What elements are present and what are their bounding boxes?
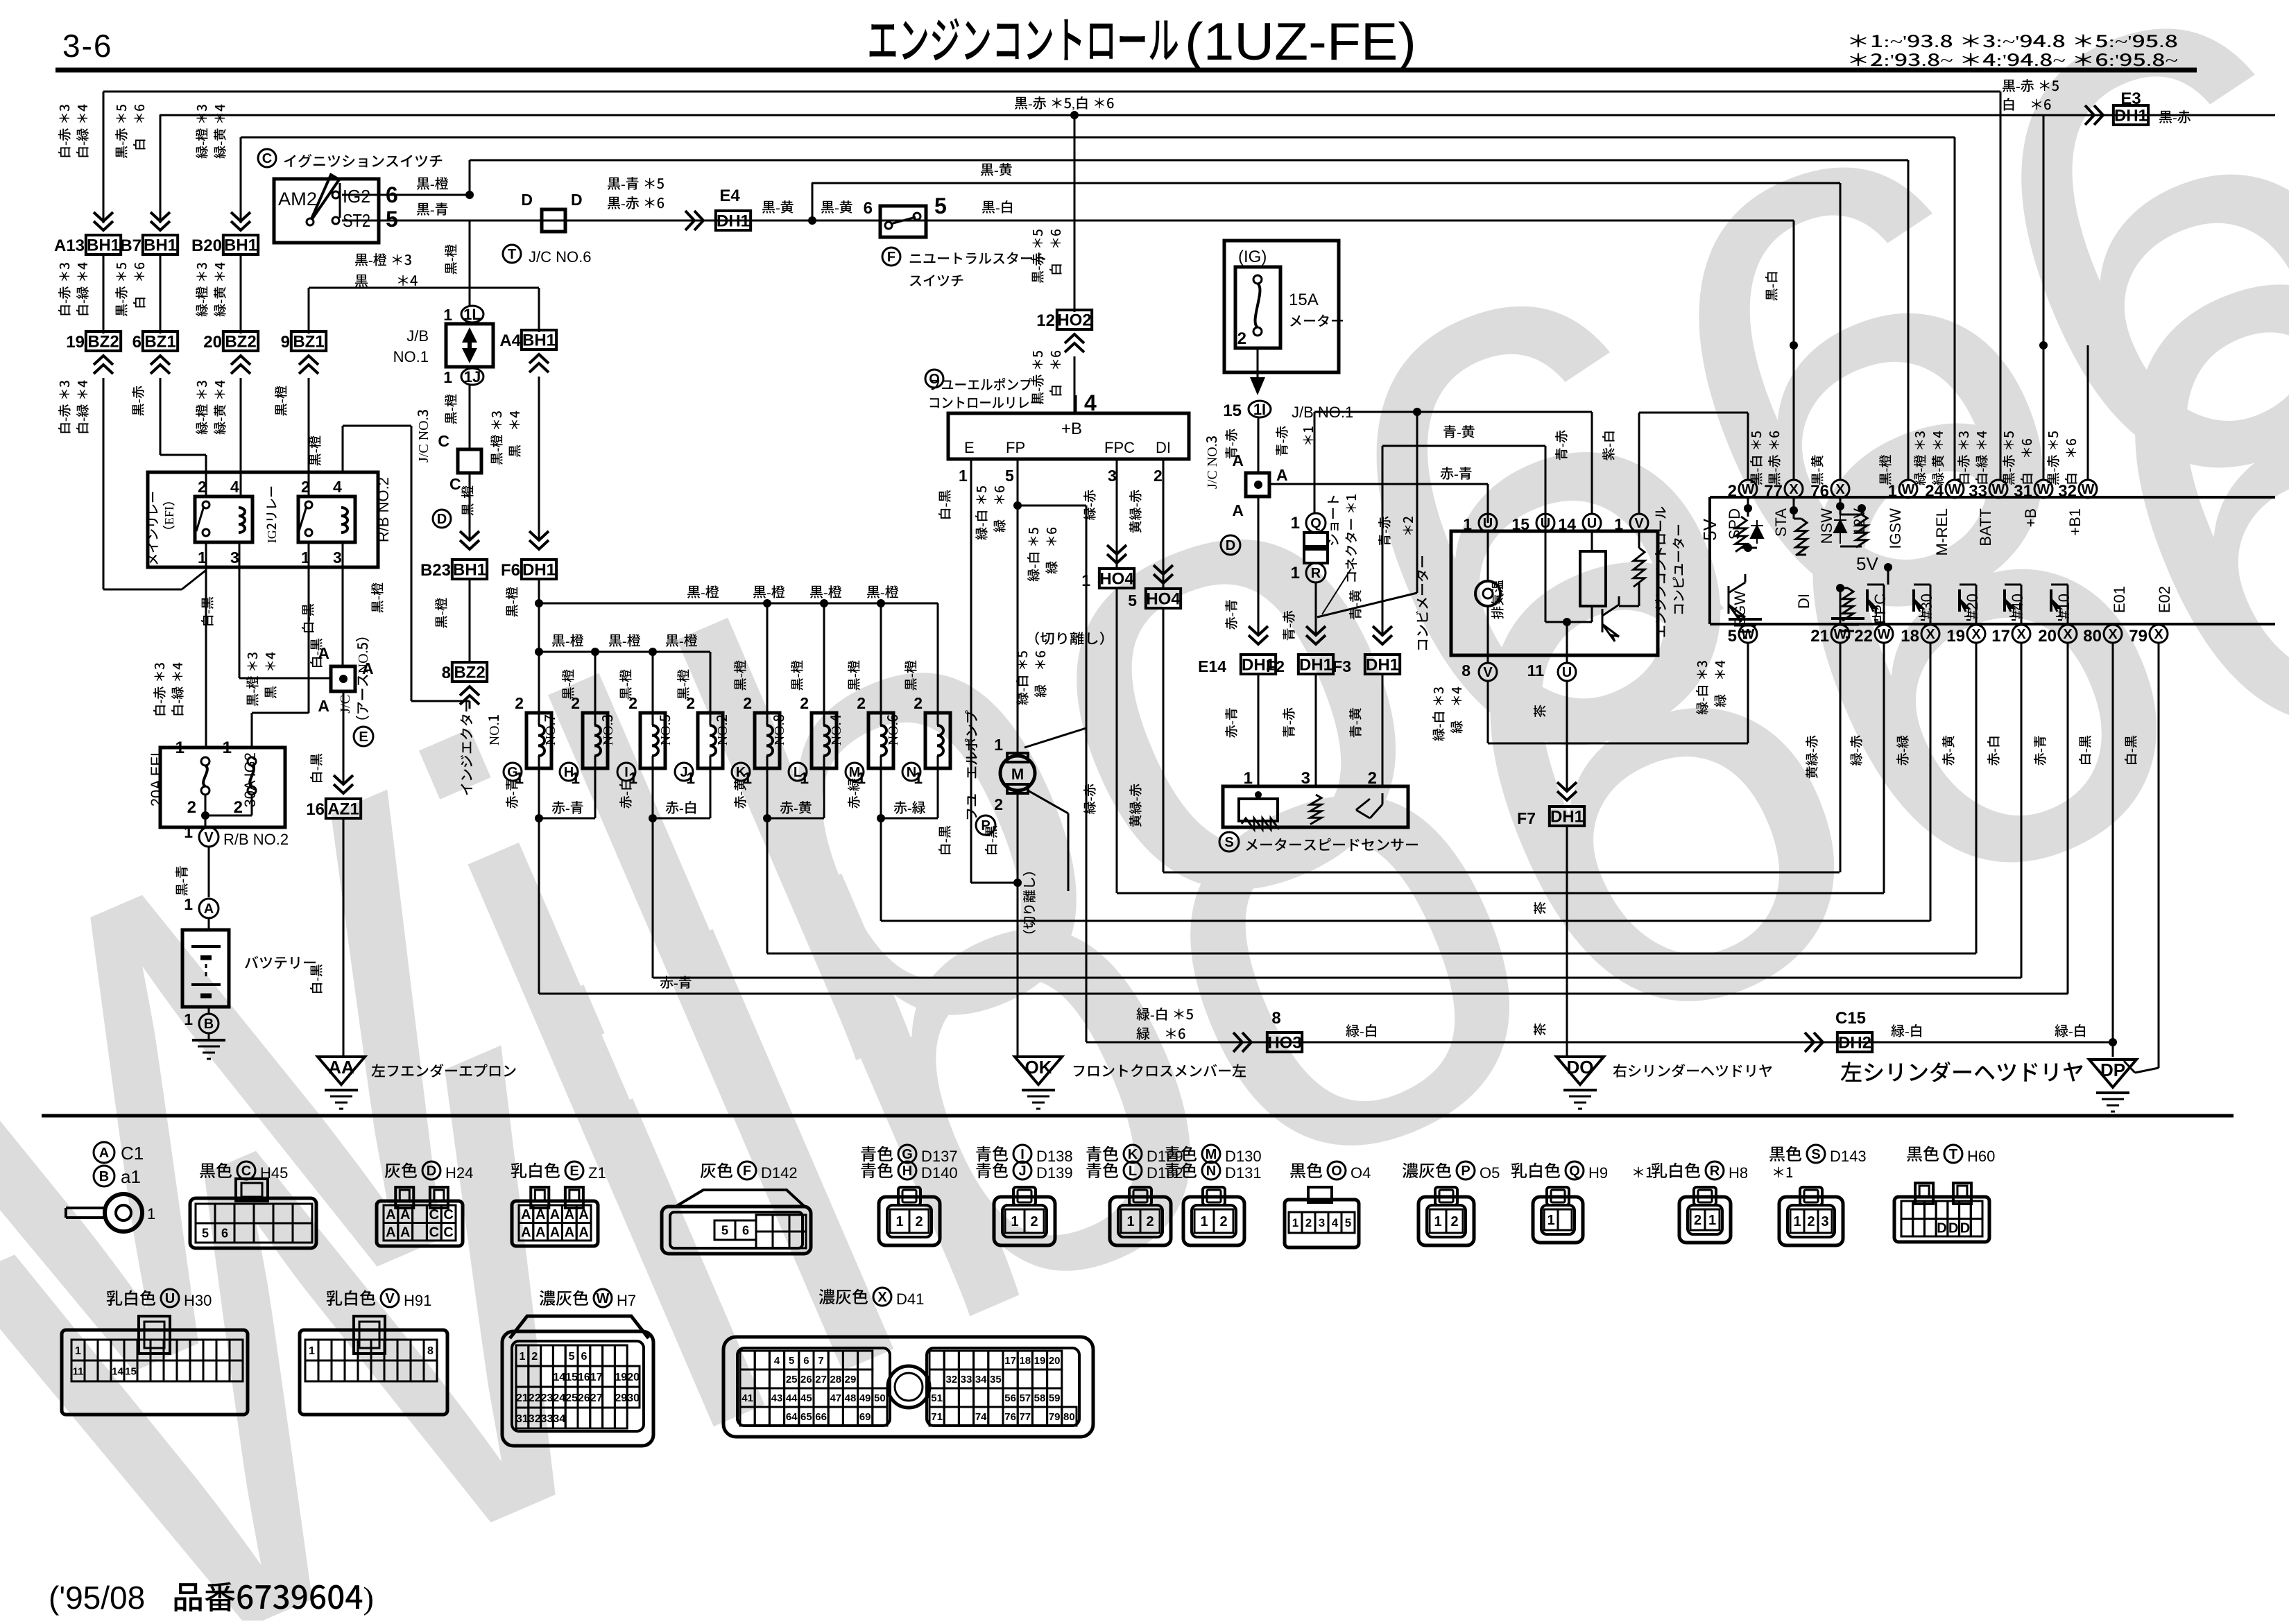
svg-text:灰色: 灰色 xyxy=(700,1157,733,1182)
svg-text:5V: 5V xyxy=(1856,553,1878,574)
svg-text:5: 5 xyxy=(789,1355,794,1367)
separator rule xyxy=(42,1114,2234,1118)
icon H60 xyxy=(1894,1197,1989,1242)
svg-text:Q: Q xyxy=(1310,516,1321,531)
svg-text:黒-橙 ＊3: 黒-橙 ＊3 xyxy=(354,249,412,269)
arrow into F7 xyxy=(1557,782,1577,800)
svg-text:AZ1: AZ1 xyxy=(327,800,359,818)
svg-text:1: 1 xyxy=(1708,1213,1716,1228)
svg-text:黒-白: 黒-白 xyxy=(1762,270,1781,301)
svg-text:59: 59 xyxy=(1049,1392,1061,1404)
svg-text:赤-青: 赤-青 xyxy=(1221,707,1240,738)
svg-text:白-緑 ＊4: 白-緑 ＊4 xyxy=(73,262,92,317)
svg-text:E: E xyxy=(964,439,975,456)
bypass *2 wire xyxy=(1416,412,1418,593)
svg-text:1: 1 xyxy=(184,895,193,913)
svg-text:X: X xyxy=(2154,627,2163,642)
relay IG2 xyxy=(298,496,355,542)
svg-text:A: A xyxy=(535,1207,545,1223)
svg-text:65: 65 xyxy=(800,1411,812,1423)
svg-text:濃灰色: 濃灰色 xyxy=(1402,1157,1452,1182)
svg-text:2: 2 xyxy=(1219,1214,1227,1229)
svg-text:青-赤: 青-赤 xyxy=(1375,516,1394,546)
svg-text:BZ1: BZ1 xyxy=(144,332,175,351)
fuse 20A EFI xyxy=(201,757,209,766)
svg-text:A: A xyxy=(565,1225,574,1240)
svg-text:バツテリー: バツテリー xyxy=(244,952,317,973)
svg-text:IG2: IG2 xyxy=(343,186,370,207)
svg-text:E4: E4 xyxy=(719,187,740,205)
svg-text:白-赤 ＊3: 白-赤 ＊3 xyxy=(1954,431,1973,485)
svg-text:#10: #10 xyxy=(2055,594,2073,619)
ECU SPD internals xyxy=(1747,497,1749,517)
meter resistor right xyxy=(1638,532,1640,548)
svg-text:16: 16 xyxy=(306,800,325,819)
svg-text:D139: D139 xyxy=(1036,1164,1073,1182)
svg-text:32: 32 xyxy=(529,1413,541,1425)
svg-text:白-黒: 白-黒 xyxy=(935,490,954,520)
svg-text:5: 5 xyxy=(1128,591,1137,610)
svg-text:2: 2 xyxy=(743,694,752,712)
svg-text:黒-橙: 黒-橙 xyxy=(1876,455,1894,485)
svg-text:赤-白: 赤-白 xyxy=(665,797,698,817)
svg-text:H60: H60 xyxy=(1967,1148,1995,1165)
svg-text:黒-赤 ＊5: 黒-赤 ＊5 xyxy=(1999,431,2018,485)
svg-text:白-赤 ＊3: 白-赤 ＊3 xyxy=(55,380,74,435)
ground DP xyxy=(2089,1060,2136,1087)
svg-text:ニユートラルスタート: ニユートラルスタート xyxy=(909,248,1047,268)
svg-text:黒-黄: 黒-黄 xyxy=(762,196,794,216)
svg-text:69: 69 xyxy=(859,1411,871,1423)
svg-text:コンピユーター: コンピユーター xyxy=(1669,524,1688,616)
svg-text:C: C xyxy=(262,151,272,166)
wire F3 to sensor xyxy=(1382,673,1384,786)
connector A13 BH1 xyxy=(86,235,121,254)
svg-text:茶: 茶 xyxy=(1530,705,1549,718)
svg-text:2: 2 xyxy=(531,1351,538,1363)
svg-text:79: 79 xyxy=(2129,627,2147,646)
svg-text:黒-橙: 黒-橙 xyxy=(551,630,584,650)
fuse 30A IG2 xyxy=(248,757,256,766)
svg-text:NO.8: NO.8 xyxy=(768,714,788,745)
svg-text:黒 ＊4: 黒 ＊4 xyxy=(505,411,524,458)
svg-text:3: 3 xyxy=(1821,1214,1828,1229)
svg-text:80: 80 xyxy=(2083,627,2102,646)
svg-text:18: 18 xyxy=(1901,627,1919,646)
svg-text:緑-黄 ＊4: 緑-黄 ＊4 xyxy=(210,104,229,159)
ground OK xyxy=(1015,1057,1062,1085)
svg-text:1: 1 xyxy=(994,736,1003,754)
svg-text:緑-白 ＊5: 緑-白 ＊5 xyxy=(1024,527,1043,582)
svg-text:黒-赤 ＊5: 黒-赤 ＊5 xyxy=(112,104,130,159)
svg-text:茶: 茶 xyxy=(1530,901,1549,915)
svg-text:A: A xyxy=(1232,451,1244,469)
svg-text:45: 45 xyxy=(800,1392,812,1404)
svg-text:H91: H91 xyxy=(404,1292,431,1309)
svg-text:U: U xyxy=(1483,516,1493,531)
svg-text:BZ1: BZ1 xyxy=(293,332,324,351)
svg-text:フユーエルポンプ: フユーエルポンプ xyxy=(928,374,1032,394)
svg-text:T: T xyxy=(508,247,516,262)
svg-text:X: X xyxy=(2063,627,2073,642)
svg-text:50: 50 xyxy=(874,1392,886,1404)
svg-text:H24: H24 xyxy=(445,1164,473,1182)
ground AA xyxy=(318,1057,365,1085)
svg-text:白 ＊6: 白 ＊6 xyxy=(2002,94,2051,114)
svg-text:4: 4 xyxy=(333,478,342,496)
svg-text:6: 6 xyxy=(803,1355,809,1367)
svg-text:緑 ＊4: 緑 ＊4 xyxy=(1711,660,1729,707)
svg-text:15A: 15A xyxy=(1289,291,1319,309)
svg-text:17: 17 xyxy=(590,1372,603,1383)
svg-text:2: 2 xyxy=(1154,467,1163,485)
svg-text:R: R xyxy=(1710,1164,1720,1179)
svg-text:M: M xyxy=(1206,1147,1217,1162)
svg-text:HO4: HO4 xyxy=(1099,569,1134,588)
svg-text:43: 43 xyxy=(771,1392,783,1404)
svg-text:黒-橙: 黒-橙 xyxy=(441,244,460,275)
svg-text:青色: 青色 xyxy=(1086,1157,1119,1182)
svg-text:赤-緑: 赤-緑 xyxy=(893,797,926,817)
ECU DI internals xyxy=(1840,585,1842,624)
ECU output transistors xyxy=(1930,585,1932,624)
svg-text:C15: C15 xyxy=(1835,1009,1866,1028)
svg-text:23: 23 xyxy=(541,1392,554,1404)
wire F6 to rail xyxy=(538,578,540,603)
svg-text:E14: E14 xyxy=(1198,657,1226,675)
svg-text:緑-白 ＊5: 緑-白 ＊5 xyxy=(1013,650,1031,705)
connector E3 DH1 xyxy=(2085,105,2103,125)
arrow into F6 xyxy=(529,531,549,549)
terminal 8V xyxy=(1487,655,1489,664)
connector B7 BH1 xyxy=(143,235,178,254)
svg-text:DO: DO xyxy=(1567,1057,1594,1078)
icon O5 xyxy=(1418,1197,1474,1245)
combination meter box xyxy=(1451,531,1658,655)
svg-text:15: 15 xyxy=(565,1372,578,1383)
svg-text:P: P xyxy=(1461,1164,1470,1179)
svg-text:X: X xyxy=(1835,482,1845,497)
svg-text:黄緑-赤: 黄緑-赤 xyxy=(1126,784,1144,827)
svg-text:白-緑 ＊4: 白-緑 ＊4 xyxy=(73,380,92,435)
ECU EGW transistor xyxy=(1729,582,1745,622)
svg-text:黒-白: 黒-白 xyxy=(981,196,1014,216)
meter lamp xyxy=(1487,532,1489,582)
meter transistor xyxy=(1591,606,1593,622)
svg-text:黒-赤 ＊6: 黒-赤 ＊6 xyxy=(1765,431,1783,485)
svg-text:H: H xyxy=(902,1164,912,1179)
svg-text:A: A xyxy=(204,901,214,917)
svg-text:L: L xyxy=(1129,1164,1137,1179)
arrow below HO2 xyxy=(1065,334,1084,352)
svg-text:E01: E01 xyxy=(2111,586,2128,613)
wire bus B-Y neutral switch to 76X NSW xyxy=(812,182,1840,184)
svg-text:排気温: 排気温 xyxy=(1488,580,1507,619)
fuel pump control relay box xyxy=(948,413,1189,459)
fuse join xyxy=(205,795,207,827)
svg-text:A: A xyxy=(1276,466,1288,484)
injector rail 2 xyxy=(539,651,710,653)
svg-text:15: 15 xyxy=(125,1365,137,1377)
svg-text:1: 1 xyxy=(1011,1214,1018,1229)
svg-text:赤-青: 赤-青 xyxy=(2030,735,2049,766)
svg-text:赤-青: 赤-青 xyxy=(660,971,692,992)
ECU NSW internals xyxy=(1840,497,1842,515)
svg-text:NO.6: NO.6 xyxy=(882,714,902,745)
svg-text:74: 74 xyxy=(975,1411,987,1423)
svg-text:2: 2 xyxy=(1146,1214,1154,1229)
svg-text:6: 6 xyxy=(581,1351,587,1363)
svg-text:80: 80 xyxy=(1063,1411,1075,1423)
svg-text:白 ＊6: 白 ＊6 xyxy=(130,262,148,309)
label T J/C NO.6 xyxy=(503,245,521,263)
title rule xyxy=(55,68,2197,73)
svg-text:黒 ＊4: 黒 ＊4 xyxy=(261,652,280,699)
svg-text:左シリンダーヘツドリヤ: 左シリンダーヘツドリヤ xyxy=(1840,1055,2084,1087)
svg-text:緑-橙 ＊3: 緑-橙 ＊3 xyxy=(192,380,211,435)
svg-text:赤-青: 赤-青 xyxy=(1221,599,1240,630)
svg-text:34: 34 xyxy=(553,1413,565,1425)
svg-text:青-黄: 青-黄 xyxy=(1443,421,1475,441)
wire column A13 xyxy=(103,92,105,223)
svg-text:5: 5 xyxy=(721,1223,728,1237)
svg-text:3: 3 xyxy=(1319,1216,1325,1229)
svg-text:1: 1 xyxy=(519,1351,525,1363)
arrow below 9BZ1 xyxy=(299,356,318,374)
wire 24W drop xyxy=(1954,137,1956,481)
svg-text:1: 1 xyxy=(686,769,695,787)
connector 19 BZ2 xyxy=(86,331,121,351)
svg-text:BZ2: BZ2 xyxy=(454,663,485,682)
svg-text:黒-橙: 黒-橙 xyxy=(271,386,290,416)
arrow into E14 xyxy=(1249,626,1268,644)
svg-text:76: 76 xyxy=(1004,1411,1016,1423)
svg-text:黒 ＊4: 黒 ＊4 xyxy=(354,270,418,290)
fuse output arrow xyxy=(1257,348,1259,378)
svg-text:NSW: NSW xyxy=(1818,508,1835,544)
arrow into F2 xyxy=(1306,626,1326,644)
svg-text:青-赤: 青-赤 xyxy=(1552,430,1570,460)
svg-text:2: 2 xyxy=(234,798,243,817)
svg-text:5: 5 xyxy=(1005,467,1014,485)
wire HO2 to relay pin4 xyxy=(1074,356,1076,413)
svg-text:黒-橙: 黒-橙 xyxy=(753,581,785,601)
speed sensor internals xyxy=(1255,791,1262,798)
injector pair joins xyxy=(538,768,540,818)
ECU STA internals xyxy=(1793,497,1795,519)
wire 9BZ1 to IG2 relay pin2 xyxy=(308,378,310,496)
svg-text:M-REL: M-REL xyxy=(1933,508,1951,555)
svg-text:黒-赤 ＊5: 黒-赤 ＊5 xyxy=(1028,229,1047,284)
arrow into B20 xyxy=(231,212,250,230)
rail1 drops xyxy=(766,603,769,713)
wire B-R/W to HO2 xyxy=(1074,115,1076,312)
neutral start switch xyxy=(880,206,926,237)
arrow below A4BH1 xyxy=(529,354,549,372)
svg-text:64: 64 xyxy=(786,1411,798,1423)
svg-text:緑-赤: 緑-赤 xyxy=(1846,735,1865,766)
svg-text:30: 30 xyxy=(627,1392,640,1404)
svg-text:F7: F7 xyxy=(1517,809,1536,827)
svg-text:DI: DI xyxy=(1795,594,1812,609)
svg-text:白 ＊6: 白 ＊6 xyxy=(2017,438,2036,485)
svg-text:BH1: BH1 xyxy=(87,236,120,254)
wire B7 to EFI relay pin2 xyxy=(160,378,162,455)
terminal 1R xyxy=(1306,563,1326,582)
svg-text:C: C xyxy=(443,1207,453,1223)
svg-text:白 ＊6: 白 ＊6 xyxy=(2061,438,2080,485)
svg-text:青-赤: 青-赤 xyxy=(1279,610,1298,641)
svg-text:NO.4: NO.4 xyxy=(825,714,845,745)
svg-text:黄緑-赤: 黄緑-赤 xyxy=(1126,490,1144,533)
svg-text:白-黒: 白-黒 xyxy=(935,825,954,856)
svg-text:C: C xyxy=(429,1207,439,1223)
svg-text:A: A xyxy=(535,1225,545,1240)
wire 8V to 5W EGW xyxy=(1487,680,1489,743)
svg-text:O4: O4 xyxy=(1351,1164,1371,1182)
svg-text:赤-白: 赤-白 xyxy=(616,778,635,809)
wire C to B23 xyxy=(469,473,471,541)
svg-text:緑-白: 緑-白 xyxy=(1346,1020,1378,1040)
svg-text:2: 2 xyxy=(914,694,923,712)
wire column B20 xyxy=(240,137,242,223)
svg-text:51: 51 xyxy=(931,1392,943,1404)
svg-text:1: 1 xyxy=(1291,514,1300,533)
connector 5 HO4 xyxy=(1146,589,1181,608)
wire F2 to sensor xyxy=(1315,673,1317,786)
svg-text:47: 47 xyxy=(830,1392,841,1404)
svg-text:A4: A4 xyxy=(499,331,521,350)
wire A box to AZ1 xyxy=(343,691,345,785)
svg-text:ショート: ショート xyxy=(1323,494,1342,546)
svg-text:DI: DI xyxy=(1156,439,1171,456)
svg-text:B23: B23 xyxy=(420,561,451,580)
ignition switch C label xyxy=(258,149,276,167)
svg-text:W: W xyxy=(1878,627,1891,642)
svg-text:8: 8 xyxy=(1461,662,1471,680)
svg-text:57: 57 xyxy=(1019,1392,1031,1404)
svg-text:G: G xyxy=(902,1147,913,1162)
svg-text:白-黒: 白-黒 xyxy=(981,825,1000,856)
icon H24 xyxy=(377,1201,463,1246)
wire bus B-O IG2 to 1W IGSW xyxy=(470,159,1908,162)
svg-text:D: D xyxy=(427,1164,436,1179)
svg-text:黄緑-赤: 黄緑-赤 xyxy=(1802,735,1821,779)
FP branch kiri-hanashi xyxy=(1018,505,1086,507)
svg-text:2: 2 xyxy=(301,478,310,496)
svg-text:D: D xyxy=(1948,1220,1958,1236)
svg-text:2: 2 xyxy=(628,694,637,712)
connector 12 HO2 xyxy=(1057,310,1092,329)
svg-text:B: B xyxy=(204,1017,214,1032)
wire R to F2 L-R xyxy=(1315,582,1317,636)
svg-text:A: A xyxy=(578,1225,588,1240)
svg-text:白-黒: 白-黒 xyxy=(298,603,317,634)
svg-text:1: 1 xyxy=(75,1345,81,1357)
svg-text:B: B xyxy=(99,1169,109,1184)
svg-text:28: 28 xyxy=(830,1374,841,1385)
svg-text:1: 1 xyxy=(1081,571,1090,589)
svg-text:4: 4 xyxy=(1332,1216,1339,1229)
svg-text:黒-赤: 黒-赤 xyxy=(128,386,147,416)
svg-text:緑-赤: 緑-赤 xyxy=(1080,784,1099,814)
svg-text:乳白色: 乳白色 xyxy=(106,1285,156,1309)
svg-text:26: 26 xyxy=(578,1392,590,1404)
svg-text:DH1: DH1 xyxy=(522,560,556,579)
connector F2 DH1 xyxy=(1298,655,1333,674)
wire FPC G-R xyxy=(1116,459,1118,569)
svg-text:V: V xyxy=(1483,665,1493,680)
svg-text:BATT: BATT xyxy=(1977,508,1994,546)
svg-text:J/B: J/B xyxy=(406,327,429,345)
svg-text:20: 20 xyxy=(627,1372,640,1383)
svg-text:スイツチ: スイツチ xyxy=(909,270,964,290)
wire bus W-R/W-G A13 to 33W BATT xyxy=(103,91,2000,93)
svg-text:R/B NO.2: R/B NO.2 xyxy=(375,477,392,542)
svg-text:(IG): (IG) xyxy=(1238,248,1267,266)
svg-text:5: 5 xyxy=(1345,1216,1351,1229)
svg-text:2: 2 xyxy=(515,694,524,712)
svg-text:I: I xyxy=(624,765,628,780)
relay block R/B No.2 box xyxy=(148,472,378,567)
svg-text:濃灰色: 濃灰色 xyxy=(539,1285,589,1309)
connector 1 HO4 xyxy=(1099,569,1134,588)
icon D41 xyxy=(723,1337,1093,1437)
svg-text:黒-白 ＊5: 黒-白 ＊5 xyxy=(1747,431,1765,485)
svg-text:1: 1 xyxy=(895,1214,903,1229)
svg-text:D138: D138 xyxy=(1036,1148,1073,1165)
svg-text:エンジンコントロール: エンジンコントロール xyxy=(867,0,1179,73)
svg-text:コントロールリレー: コントロールリレー xyxy=(928,392,1043,412)
svg-text:('95/08: ('95/08 xyxy=(49,1580,154,1616)
svg-text:D142: D142 xyxy=(761,1164,798,1182)
svg-text:紫-白: 紫-白 xyxy=(1599,430,1618,460)
svg-text:C: C xyxy=(241,1164,251,1179)
svg-text:V: V xyxy=(385,1291,395,1306)
svg-text:A: A xyxy=(521,1225,531,1240)
svg-text:1I: 1I xyxy=(1253,401,1266,418)
svg-text:H30: H30 xyxy=(184,1292,212,1309)
svg-text:19: 19 xyxy=(66,333,85,352)
svg-text:BH1: BH1 xyxy=(453,560,486,579)
wire A4 to F6 xyxy=(538,377,540,541)
svg-text:A: A xyxy=(578,1207,588,1223)
svg-text:2: 2 xyxy=(1237,329,1246,348)
meter resistor block xyxy=(1591,532,1593,551)
svg-text:D137: D137 xyxy=(921,1148,958,1165)
icon H7 xyxy=(510,1316,649,1338)
svg-text:黒-橙: 黒-橙 xyxy=(809,581,842,601)
svg-text:白-赤 ＊3: 白-赤 ＊3 xyxy=(150,662,169,717)
svg-text:＊1: ＊1 xyxy=(1298,426,1317,447)
svg-text:黒-黄: 黒-黄 xyxy=(980,159,1013,179)
svg-text:1: 1 xyxy=(959,467,968,485)
svg-text:黒-橙: 黒-橙 xyxy=(431,598,450,628)
svg-text:黒-橙: 黒-橙 xyxy=(458,485,477,516)
svg-text:25: 25 xyxy=(786,1374,798,1385)
svg-text:Z1: Z1 xyxy=(588,1164,606,1182)
icon H9 xyxy=(1533,1197,1583,1243)
svg-text:フロントクロスメンバー左: フロントクロスメンバー左 xyxy=(1072,1060,1246,1081)
svg-text:58: 58 xyxy=(1034,1392,1046,1404)
ECU bottom wires xyxy=(1840,642,1842,872)
svg-text:35: 35 xyxy=(990,1374,1002,1385)
svg-text:黒色: 黒色 xyxy=(1769,1141,1802,1165)
svg-text:2: 2 xyxy=(800,694,809,712)
svg-text:F: F xyxy=(743,1164,751,1179)
svg-text:緑-黄 ＊4: 緑-黄 ＊4 xyxy=(210,262,229,317)
fuse block R/B No.2 box xyxy=(160,748,285,827)
